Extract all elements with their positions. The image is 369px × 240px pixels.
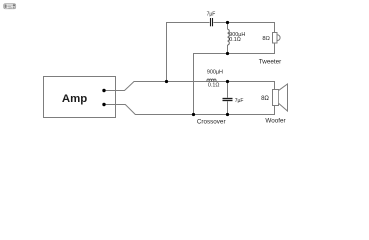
svg-text:Crossover: Crossover: [197, 118, 226, 125]
svg-text:0.1Ω: 0.1Ω: [229, 37, 241, 43]
svg-text:8Ω: 8Ω: [262, 36, 270, 42]
svg-text:Tweeter: Tweeter: [259, 58, 281, 65]
svg-text:7µF: 7µF: [235, 98, 244, 104]
svg-text:Woofer: Woofer: [265, 118, 285, 125]
svg-text:7µF: 7µF: [207, 11, 216, 17]
svg-text:900µH: 900µH: [207, 70, 223, 76]
svg-text:Amp: Amp: [62, 93, 87, 105]
svg-text:8Ω: 8Ω: [261, 96, 269, 102]
svg-text:0.1Ω: 0.1Ω: [208, 82, 220, 88]
